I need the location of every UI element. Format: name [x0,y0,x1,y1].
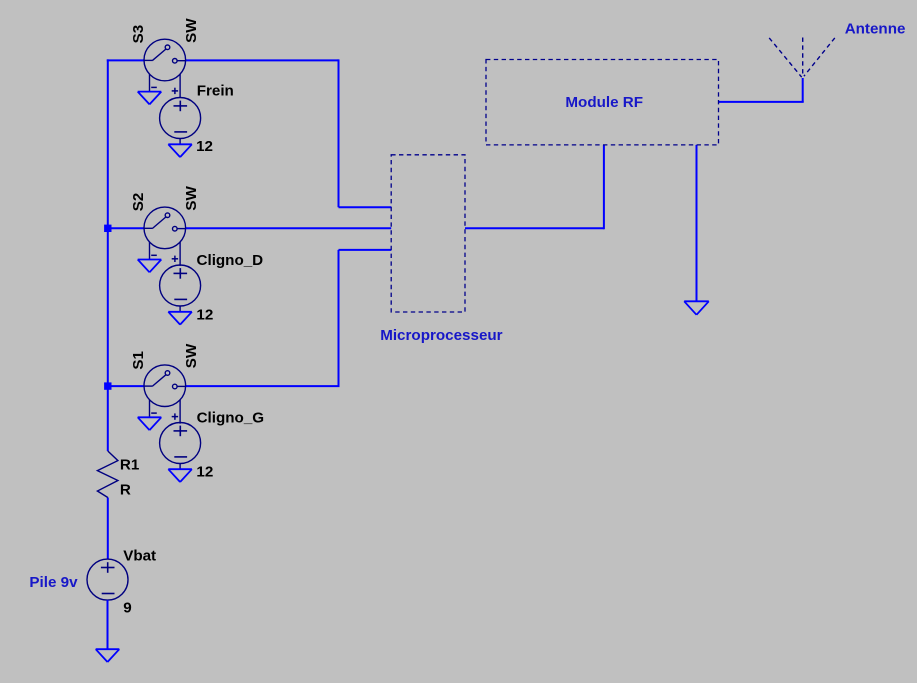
label SW of S1 [183,343,200,368]
wire to microprocessor pin1 [339,206,392,208]
svg-text:SW: SW [183,185,200,210]
switch S1 [144,365,186,424]
label R1 [120,457,140,474]
ground of S3 [138,92,162,105]
label Cligno_D [197,252,264,269]
wire Frein ground stem [179,139,181,145]
voltage source Vbat [87,559,128,600]
label S3 [130,25,147,44]
junction node bus-S2 [104,225,111,232]
label Vbat [123,547,156,564]
svg-text:R1: R1 [120,457,140,474]
text Pile 9v [29,574,78,591]
label SW of S3 [183,18,200,43]
svg-text:SW: SW [183,18,200,43]
wire antenna stem [802,78,804,102]
wire S1 riser up [338,250,340,386]
wire Cligno_D ground stem [179,306,181,312]
wire S3 left [107,59,144,61]
text Antenne [845,21,906,38]
wire Vbat to ground [107,600,109,649]
svg-text:SW: SW [183,343,200,368]
wire module RF ground pin [696,145,698,302]
ground of S2 [138,260,162,273]
svg-text:Module RF: Module RF [565,94,643,111]
switch S2 [144,207,186,266]
wire microprocessor out right [465,227,604,229]
antenna symbol [769,38,835,78]
ground of module RF [684,301,709,315]
svg-text:S1: S1 [130,350,147,369]
wire Cligno_G ground stem [179,464,181,470]
wire bus below resistor [107,498,109,560]
label Cligno_G [197,410,265,427]
microprocessor box [391,155,465,312]
label S2 [130,193,147,212]
wire S3 ground stem [149,90,151,93]
wire S1 right horizontal [186,385,340,387]
svg-text:12: 12 [196,138,213,155]
svg-text:S2: S2 [130,193,147,212]
wire module RF pin down [603,145,605,229]
svg-text:Pile 9v: Pile 9v [29,574,78,591]
svg-text:Microprocesseur: Microprocesseur [380,327,502,344]
value 12 of Frein [196,138,213,155]
wire S3 right horizontal [186,59,339,61]
wire S1 left [107,385,144,387]
svg-text:S3: S3 [130,25,147,44]
svg-text:Antenne: Antenne [845,21,906,38]
svg-text:Frein: Frein [197,83,234,100]
module RF box [486,60,719,145]
voltage source Cligno_G [160,423,201,464]
ground of Cligno_D [168,312,192,325]
wire S2 ground stem [149,258,151,261]
junction node bus-S1 [104,382,111,389]
wire S1 ground stem [149,416,151,419]
text Microprocesseur [380,327,502,344]
ground of Vbat [96,649,120,662]
wire S3 riser down [338,59,340,207]
wire to microprocessor pin3 [339,249,392,251]
label Frein [197,83,234,100]
wire main bus vertical [107,59,109,451]
voltage source Cligno_D [160,265,201,306]
wire module RF to antenna [719,101,804,103]
value R of R1 [120,481,131,498]
text Module RF [565,94,643,111]
svg-text:Cligno_G: Cligno_G [197,410,265,427]
resistor R1 [97,451,118,498]
svg-text:Cligno_D: Cligno_D [197,252,264,269]
value 12 of Cligno_G [196,463,213,480]
label S1 [130,350,147,369]
wire S2 to microprocessor pin2 [186,227,392,229]
svg-text:9: 9 [123,600,131,617]
ground of Cligno_G [168,469,192,482]
svg-text:R: R [120,481,131,498]
ground of Frein [168,144,192,157]
svg-text:Vbat: Vbat [123,547,156,564]
value 12 of Cligno_D [196,307,213,324]
wire S2 left [107,227,144,229]
value 9 of Vbat [123,600,131,617]
svg-text:12: 12 [196,463,213,480]
svg-text:12: 12 [196,307,213,324]
label SW of S2 [183,185,200,210]
ground of S1 [138,417,162,430]
voltage source Frein [160,98,201,139]
switch S3 [144,39,186,98]
